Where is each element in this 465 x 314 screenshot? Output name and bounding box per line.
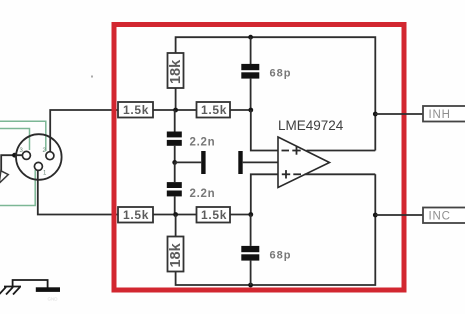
node: top rail / 68p junction [248,35,253,40]
svg-text:18k: 18k [168,242,184,267]
resistor 18k (top feedback) [168,53,184,88]
svg-text:1.5k: 1.5k [201,208,227,222]
XLR connector body [16,134,62,180]
svg-text:INH: INH [429,109,451,121]
svg-text:INC: INC [429,210,451,222]
svg-text:2.2n: 2.2n [190,137,216,149]
capacitor 2.2n (bottom) [167,162,216,214]
wire from top row corner down to XLR pin 2 [50,110,118,152]
svg-text:68p: 68p [270,250,292,262]
svg-text:GND: GND [48,297,59,302]
shield arrow symbol (cut at left edge) [0,171,8,183]
wire to op-amp -input (bottom) [251,174,278,214]
svg-text:68p: 68p [270,68,292,80]
resistor 1.5k (top left) [118,102,153,118]
wire between top 1.5k resistors [153,109,197,111]
svg-text:1.5k: 1.5k [123,103,149,117]
wire to INH label [375,113,423,115]
node: top row right junction [248,108,253,113]
wire to INC label [375,214,423,216]
net label INH [423,106,465,122]
wire bottom 1.5k to op-amp branch [230,214,251,216]
wire top 1.5k to op-amp branch [230,109,251,111]
node: INH tap [373,112,378,117]
junction on pin-3 wire [12,153,17,158]
node: bottom row right junction [248,212,253,217]
capacitor 2.2n (top) [167,110,216,162]
svg-text:LME49724: LME49724 [278,118,344,133]
node: bottom rail / 68p junction [248,283,253,288]
wire 18k to top row node [175,88,177,110]
wire op-amp upper output [307,150,376,152]
red highlight box [114,25,404,291]
node: INC tap [373,213,378,218]
svg-text:1.5k: 1.5k [123,208,149,222]
node: bottom row left junction [173,212,178,217]
node: top row left junction [173,108,178,113]
green shield/ground wire to pin 2 [0,121,46,151]
wire to op-amp +input (top) [251,110,278,151]
net label INC [423,208,465,224]
wire from XLR pin 1 to bottom row [38,171,118,215]
XLR pin 2 [46,152,54,160]
resistor 1.5k (bottom right) [197,207,231,223]
capacitor 68p (top) [241,37,291,110]
wire from XLR pin 3 to shield arrow [1,155,22,171]
bottom feedback rail wire [176,174,376,285]
green wire to pin 3 [0,129,30,151]
svg-text:18k: 18k [168,59,184,84]
resistor 1.5k (top right) [197,102,231,118]
top feedback rail wire [176,37,376,150]
speck artifact [91,76,93,78]
vocm coupling capacitor (horizontal) [175,151,278,174]
capacitor 68p (bottom) [241,215,291,286]
XLR pin 1 [34,162,42,170]
resistor 18k (bottom feedback) [168,215,184,272]
node: midpoint of 2.2n divider [172,160,177,165]
svg-text:2.2n: 2.2n [190,188,216,200]
chassis ground symbol [0,280,48,295]
svg-text:1.5k: 1.5k [201,103,227,117]
XLR pin 3 [22,151,30,159]
op-amp U1 LME49724 [278,118,344,188]
wire op-amp lower output [305,173,376,175]
resistor 1.5k (bottom left) [118,207,153,223]
earth ground bar [36,287,60,292]
wire between bottom 1.5k resistors [153,214,197,216]
green wire from pin 1 [0,170,35,206]
